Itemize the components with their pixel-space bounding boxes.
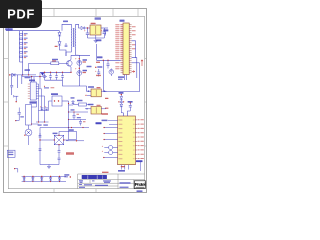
LED chain vertical: [78, 55, 80, 86]
labels under U2: [118, 166, 125, 172]
wires bridge: [40, 128, 69, 165]
net arrow at connector pin: [132, 71, 135, 73]
LED D7: [75, 68, 87, 76]
chain left above U2: [118, 92, 124, 116]
small part above LED row: [14, 168, 18, 172]
junctions on upper bus: [31, 76, 41, 77]
junction dot bridge-left: [39, 139, 40, 140]
wire bottom rail cluster: [40, 164, 59, 166]
connector CON2: [7, 150, 15, 157]
border zone tick bottom 1: [53, 189, 55, 193]
wire: bus branch 2: [69, 111, 89, 113]
chain right above U2: [127, 101, 132, 116]
PDF badge: [0, 0, 42, 28]
resistor R5: [20, 51, 28, 54]
wire: long horizontal rail mid-left: [10, 74, 36, 76]
labels center branches: [71, 97, 86, 122]
border zone tick right 2: [145, 101, 147, 103]
border zone tick top 3: [112, 9, 114, 17]
relay K3 box: [26, 101, 39, 125]
wire under K2: [66, 140, 84, 141]
capacitor C3: [65, 43, 68, 47]
sheet outer border: [4, 9, 147, 193]
sheet inner border: [8, 16, 144, 188]
capacitor C18: [39, 149, 42, 151]
label VCC near junction: [96, 39, 103, 62]
wire: SIP right verticals: [39, 84, 53, 122]
optocoupler U5: [85, 104, 106, 114]
wire: vertical drop left with capacitor C2: [10, 75, 13, 95]
resistor network RN2 (SIP): [28, 80, 39, 101]
connector J1 pin name labels left: [115, 24, 122, 69]
border zone tick bottom 2: [95, 189, 97, 193]
motor/transistor Q4: [25, 125, 32, 145]
LED DA5: [58, 176, 61, 182]
transistor Q1: [65, 55, 73, 72]
LED bubble row 1: [102, 145, 118, 149]
diode D4: [81, 26, 90, 29]
border zone tick right 1: [145, 58, 147, 60]
transformer T1: [62, 24, 81, 56]
diode D9 solid: [41, 73, 44, 76]
diode D1: [9, 73, 15, 76]
sheet cell text: [120, 182, 131, 188]
LED bubble row 2: [102, 150, 118, 154]
wire: rail to opto: [87, 86, 92, 91]
border zone tick right 3: [145, 145, 147, 147]
wire U2 pin row 6: [103, 157, 117, 158]
wire U2 pin row 1: [103, 127, 117, 128]
tiny text under logo: [137, 190, 143, 192]
wire: lower rail: [36, 121, 49, 125]
voltage regulator U3: [90, 23, 101, 35]
resistor ladder rails RN1: [20, 31, 23, 62]
net label above title block: [102, 172, 109, 173]
size cell text: [79, 180, 83, 183]
wire: connector right routing: [132, 41, 140, 78]
ground rail under regulator: [88, 37, 105, 39]
power port +5V: [103, 29, 108, 35]
junction dots branch4: [71, 127, 84, 128]
junction dots loop: [103, 60, 109, 61]
red net labels left of chains: [102, 98, 109, 115]
IC U2 right net labels: [138, 119, 144, 159]
U2 upper-left net labels: [96, 120, 108, 125]
resistor R1: [20, 33, 28, 36]
LED DA2: [32, 176, 35, 182]
title block frame: [78, 174, 145, 189]
resistor R3: [20, 42, 28, 45]
relay K1: [51, 93, 62, 106]
capacitor C13: [79, 120, 82, 126]
wire: loop below connector: [97, 44, 140, 92]
capacitor C16: [58, 158, 61, 164]
label right-low of U2: [136, 160, 143, 171]
capacitor C14: [15, 108, 24, 122]
wire: SIP top connections: [32, 77, 34, 82]
vertical bus center: [68, 101, 70, 132]
LED DA4: [49, 176, 52, 182]
capacitor C6: [107, 60, 110, 68]
date cell text: [79, 184, 108, 188]
sheet label text under top border: [95, 17, 101, 19]
wire: left vertical from rail: [39, 72, 41, 88]
connector J1 pin labels right upper: [132, 26, 136, 49]
connector J1 pins right: [129, 25, 131, 73]
junction dots cap row: [44, 72, 72, 73]
wire: regulator output: [101, 27, 108, 29]
ground symbol GND1: [94, 35, 98, 43]
border zone tick left 3: [4, 145, 9, 147]
IC U2 body: [118, 116, 136, 165]
LED DA1: [23, 176, 26, 182]
IC U2 top pin stubs: [123, 113, 127, 116]
LED D5: [109, 69, 114, 77]
wire: second rail of cap row: [44, 80, 87, 88]
IC U2 left pin stubs: [108, 120, 118, 124]
bridge rectifier B1: [53, 133, 65, 146]
wire: top of LED chain: [71, 54, 90, 56]
box K2: [69, 129, 77, 139]
connector J1 pins left: [121, 25, 123, 73]
title text: [82, 175, 107, 179]
wire U2 pin row 3: [103, 139, 117, 140]
capacitor C12: [73, 111, 76, 119]
border zone tick top 1: [53, 9, 55, 17]
capacitor row C8 C9 C10 C11: [43, 72, 64, 80]
resistor R7: [28, 59, 65, 76]
LED D6: [75, 58, 87, 66]
border zone tick left 1: [4, 58, 9, 60]
wire: vertical x17: [16, 75, 18, 88]
capacitor C7: [95, 69, 101, 77]
net label under left rail: [25, 77, 31, 79]
label under connector: [118, 76, 124, 80]
IC U2 internal pin names: [118, 120, 122, 160]
junction dots on center bus: [68, 103, 69, 128]
capacitor C17: [39, 133, 42, 137]
capacitor C15: [58, 151, 61, 158]
wire: K1 to bus: [62, 100, 69, 102]
wire: mid rail with caps: [39, 106, 49, 111]
diode stack D2: [58, 31, 61, 36]
diode D8: [69, 100, 75, 105]
IC U2 bottom pin stubs: [121, 165, 128, 170]
border zone tick top 4: [137, 9, 139, 17]
wire: vertical x21.8: [21, 75, 23, 84]
wire: bus branch 3: [69, 119, 87, 121]
LED array bottom rail: [22, 181, 66, 183]
junction dot Q4: [24, 135, 25, 136]
wire: ladder down stem: [22, 62, 24, 75]
optocoupler U4: [85, 86, 106, 97]
jumper W1: [14, 95, 18, 102]
number cell text: [92, 180, 111, 183]
LED DA3: [41, 176, 44, 182]
resistor R4: [20, 47, 28, 50]
ground symbol GND2: [47, 165, 51, 169]
connector J1 label: [120, 20, 125, 22]
resistor R6: [20, 56, 28, 59]
wire: upper bus over SIP: [22, 76, 47, 78]
connector J1 body: [123, 23, 129, 75]
diode D3: [58, 36, 66, 56]
net label at ladder bottom: [25, 69, 31, 71]
net label mid: [87, 66, 103, 68]
Protel logo: [134, 181, 145, 189]
LED array label: [64, 174, 71, 178]
resistor R8: [73, 100, 90, 106]
border zone tick top 2: [95, 9, 97, 17]
capacitor C4 electrolytic: [84, 27, 89, 38]
red net label F1802: [66, 152, 74, 155]
LED array top rail: [22, 175, 66, 177]
svg-text:Protel: Protel: [135, 182, 146, 187]
power pin arrow right: [141, 60, 143, 66]
wire: bus branch 4: [69, 127, 90, 129]
transformer T1 label: [63, 21, 68, 23]
net label VIN top-left: [5, 28, 13, 30]
IC U2 right pin stubs: [135, 120, 137, 159]
label near diode stack: [55, 46, 58, 47]
capacitor C5: [101, 28, 106, 38]
junction on long rail: [22, 74, 23, 75]
svg-text:PDF: PDF: [7, 6, 35, 21]
wire U2 pin row 2: [103, 133, 117, 134]
resistor R2: [20, 38, 28, 41]
wire: top horizontal rail: [6, 30, 60, 32]
border zone tick left 2: [4, 101, 9, 103]
